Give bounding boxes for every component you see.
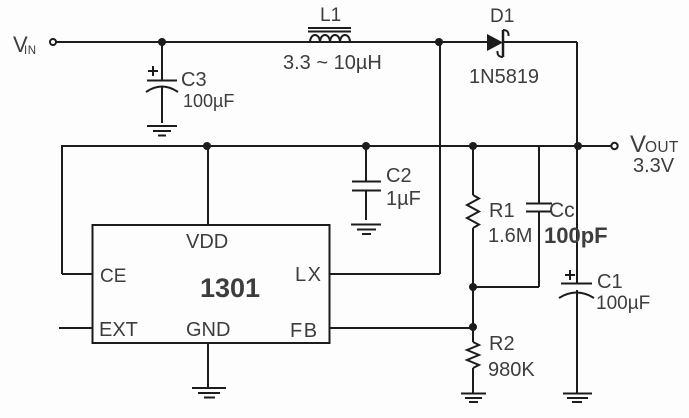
svg-text:GND: GND bbox=[186, 319, 230, 341]
svg-text:CE: CE bbox=[100, 266, 126, 287]
svg-text:1301: 1301 bbox=[200, 273, 260, 303]
svg-text:C2: C2 bbox=[386, 165, 412, 187]
svg-text:3.3V: 3.3V bbox=[633, 155, 675, 177]
svg-text:100pF: 100pF bbox=[544, 223, 608, 248]
svg-text:C1: C1 bbox=[597, 271, 623, 293]
svg-text:L1: L1 bbox=[320, 5, 341, 26]
svg-text:100µF: 100µF bbox=[183, 91, 234, 111]
svg-text:3.3 ~ 10µH: 3.3 ~ 10µH bbox=[283, 52, 382, 74]
svg-text:100µF: 100µF bbox=[596, 293, 650, 314]
svg-text:980K: 980K bbox=[488, 359, 535, 381]
svg-text:D1: D1 bbox=[490, 6, 514, 27]
svg-text:IN: IN bbox=[24, 45, 37, 57]
svg-text:OUT: OUT bbox=[645, 139, 679, 156]
svg-text:R1: R1 bbox=[489, 200, 515, 222]
svg-text:1.6M: 1.6M bbox=[488, 225, 532, 247]
svg-text:EXT: EXT bbox=[99, 319, 138, 341]
svg-text:Cc: Cc bbox=[549, 199, 575, 222]
svg-text:R2: R2 bbox=[489, 333, 515, 355]
svg-text:VDD: VDD bbox=[186, 231, 228, 253]
svg-text:1µF: 1µF bbox=[386, 188, 421, 210]
svg-text:FB: FB bbox=[290, 320, 319, 342]
svg-text:LX: LX bbox=[295, 264, 322, 286]
svg-text:C3: C3 bbox=[181, 69, 207, 91]
svg-text:V: V bbox=[630, 131, 646, 158]
svg-text:1N5819: 1N5819 bbox=[469, 66, 539, 88]
